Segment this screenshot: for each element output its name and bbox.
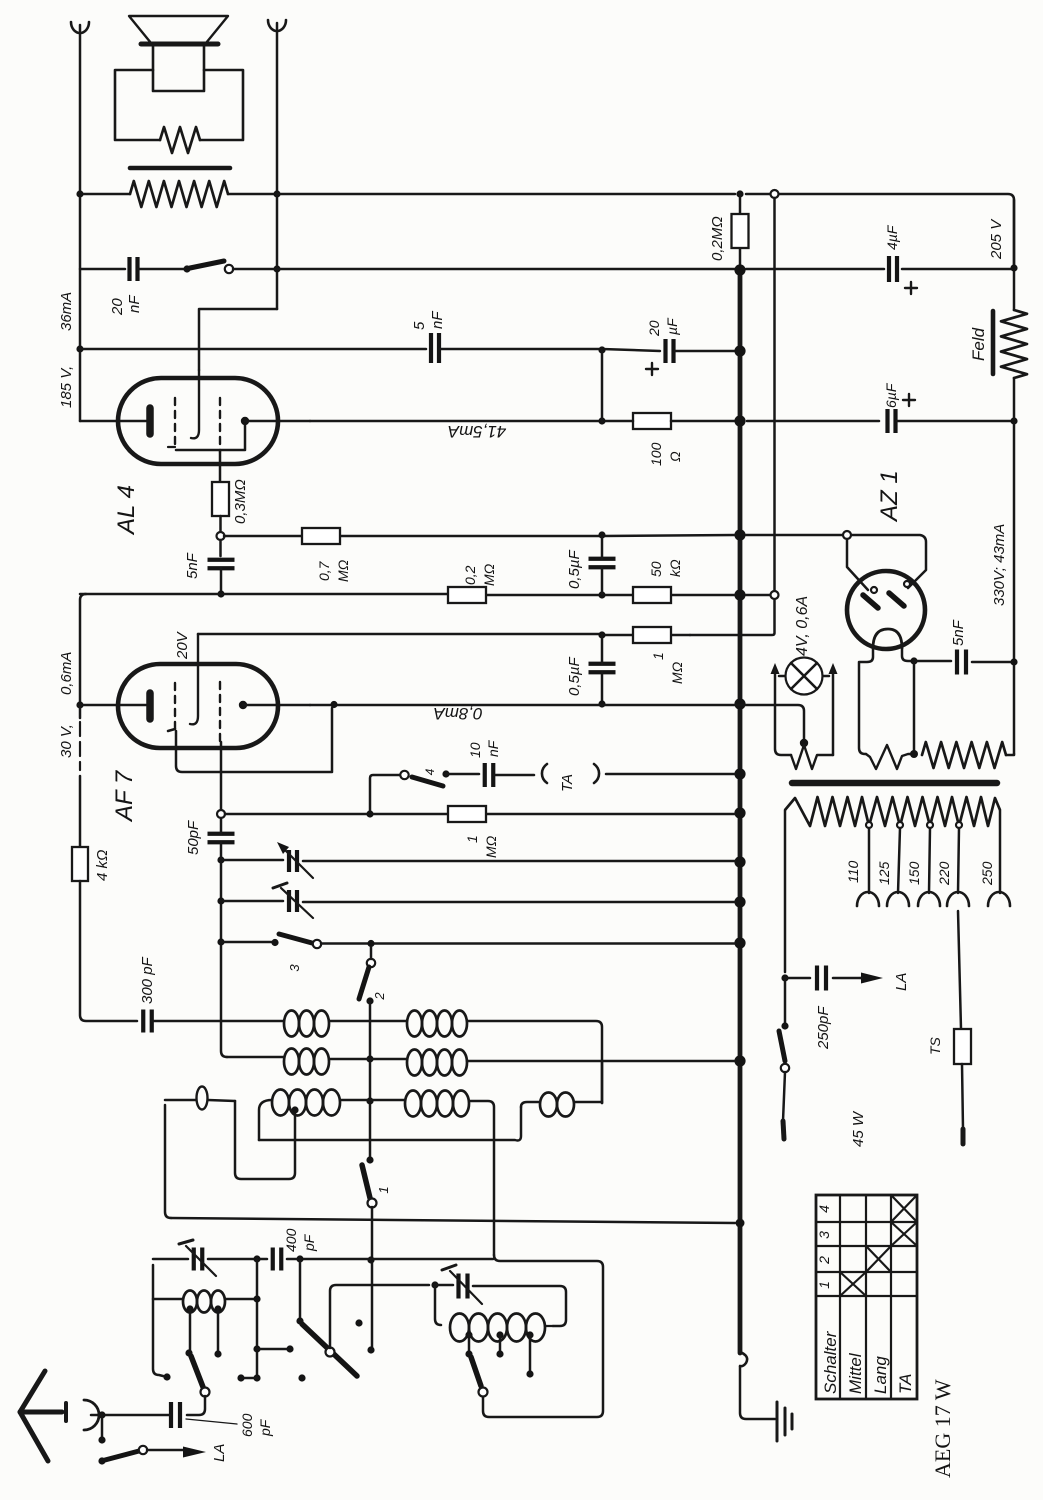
wire: y=269 from left rail	[80, 268, 125, 271]
wire: y=349 line	[80, 348, 426, 351]
bus blob y862	[734, 856, 745, 867]
junction dot x1014 y662	[1010, 658, 1017, 665]
svg-text:MΩ: MΩ	[669, 661, 685, 684]
bus blob y902	[734, 896, 745, 907]
lamp right leg	[832, 668, 835, 755]
wire: y=902 line	[221, 901, 735, 902]
ring terminal x774 y595	[771, 591, 779, 599]
svg-text:nF: nF	[429, 311, 446, 329]
wire: LA arrow line	[147, 1449, 183, 1452]
junction dot x221 y901	[217, 897, 224, 904]
table vertical lines	[840, 1195, 891, 1399]
svg-text:125: 125	[876, 861, 892, 885]
switch 2 ring	[367, 959, 375, 967]
AL4 anode dot	[241, 417, 249, 425]
AF7 control grid from top	[190, 634, 198, 724]
svg-text:100: 100	[648, 442, 664, 466]
svg-text:3: 3	[287, 964, 302, 972]
svg-text:0,7: 0,7	[316, 560, 332, 581]
wire: y=1286 right corner	[435, 1285, 566, 1326]
speaker terminal hook right	[268, 20, 286, 31]
junction dot x602 y595	[598, 591, 605, 598]
osc pickup loop	[165, 1100, 235, 1101]
svg-text:250: 250	[979, 861, 995, 886]
wire: 250pF line	[785, 977, 862, 980]
lamp arrow right	[829, 663, 838, 674]
junction dot x370 y1160	[366, 1156, 373, 1163]
wire: x435 down to coil	[435, 1285, 441, 1325]
wire: 220 hook to fuse	[958, 911, 961, 1029]
wire: 0,5uF#1 stubs	[601, 536, 604, 594]
wire: jog x494-x603	[483, 1255, 603, 1417]
switch LA ring	[139, 1446, 147, 1454]
AZ1 left anode ring	[871, 587, 877, 593]
svg-text:3: 3	[816, 1231, 832, 1239]
capacitor 4uF	[889, 256, 897, 282]
tube AF7 envelope	[118, 664, 278, 748]
svg-text:MΩ: MΩ	[335, 559, 351, 582]
ring x221 y814	[217, 810, 225, 818]
svg-text:20: 20	[646, 320, 662, 337]
bus blob y774	[734, 768, 745, 779]
svg-text:pF: pF	[257, 1418, 273, 1437]
wire: fuse to pin	[962, 1064, 963, 1129]
switch B lever	[302, 1324, 357, 1376]
contact dot x290 y1349	[286, 1345, 293, 1352]
wire: x914 down	[913, 661, 916, 754]
resistor 50k Ohm	[633, 587, 671, 603]
wire: y=943 line right	[321, 942, 735, 945]
wire: y=535 bus to AZ1	[746, 534, 843, 537]
wire: x257 vertical	[256, 1259, 259, 1378]
AF7 anode dot	[239, 701, 247, 709]
tap dot MW 2	[496, 1331, 503, 1338]
svg-text:nF: nF	[485, 739, 501, 757]
tap line 125	[898, 828, 900, 893]
svg-text:Ω: Ω	[667, 451, 683, 462]
svg-text:20: 20	[109, 298, 126, 316]
wire: anode line y=421	[310, 420, 879, 423]
junction dot x102 y1415	[98, 1411, 105, 1418]
resistor 0,2M Ohm #2	[448, 587, 486, 603]
AL4 anode lead	[245, 420, 310, 423]
switch C ring	[479, 1388, 488, 1397]
AL4 control grid from top	[191, 370, 199, 438]
ground symbol	[777, 1402, 792, 1441]
wire: x785 to switch	[784, 978, 787, 1024]
switch 1 ring	[368, 1199, 377, 1208]
switch A lever	[191, 1356, 203, 1387]
svg-text:2: 2	[372, 992, 387, 1001]
svg-text:2: 2	[816, 1256, 832, 1265]
AL4 grid 3 dashed	[219, 398, 221, 452]
switch dot	[183, 265, 190, 272]
plus sign 20uF	[646, 363, 658, 375]
switch A ring	[201, 1388, 210, 1397]
LA arrow tail	[860, 977, 862, 979]
switch B dot	[296, 1317, 303, 1324]
wire: right rail mid	[1013, 378, 1016, 754]
switch LA lever	[105, 1451, 139, 1460]
wire: swA to 600pF	[187, 1396, 205, 1415]
wire: 300pF to coil1a	[152, 1020, 284, 1023]
junction dot x914 y754	[910, 750, 918, 758]
contact dot x241 y1378	[237, 1374, 244, 1381]
svg-text:4µF: 4µF	[884, 224, 900, 250]
wire: anode line y=705	[310, 705, 804, 743]
switch 4 lever	[412, 777, 443, 786]
junction dot x277 y194	[273, 190, 280, 197]
AL4 bottom bracket	[176, 421, 245, 450]
switch 1 lever	[362, 1165, 370, 1198]
lamp circle	[786, 658, 823, 695]
wire: corner to coil2a	[227, 1057, 407, 1059]
wire: stub down	[101, 1415, 104, 1440]
svg-text:330V; 43mA: 330V; 43mA	[991, 524, 1008, 606]
svg-text:AEG 17 W: AEG 17 W	[930, 1379, 955, 1478]
mains switch dot	[781, 1022, 788, 1029]
switch B ring	[326, 1348, 335, 1357]
lamp arrow left	[771, 663, 780, 674]
AL4 cathode bar	[146, 408, 154, 434]
trimmer 4 arrow	[450, 1271, 482, 1304]
switch 2 lever	[359, 967, 369, 999]
AZ1 left anode bar	[863, 595, 878, 608]
svg-text:185 V,: 185 V,	[58, 366, 75, 408]
switch ring	[225, 265, 233, 273]
svg-text:pF: pF	[301, 1233, 317, 1252]
capacitor 50pF	[208, 834, 235, 843]
lamp cross	[791, 663, 817, 689]
junction dot right rail y=268	[1010, 264, 1017, 271]
wire MW coil right	[545, 1325, 553, 1327]
tap ring 220	[956, 822, 962, 828]
AL4 grid 1 foot	[168, 446, 175, 448]
bus dot y1223	[736, 1219, 745, 1228]
svg-text:50: 50	[648, 561, 664, 577]
svg-text:150: 150	[906, 861, 922, 885]
junction dot x300 y1259	[296, 1255, 303, 1262]
AF7 grid3 down	[220, 742, 223, 810]
svg-text:4 kΩ: 4 kΩ	[94, 850, 111, 881]
wire: AL4 g3 down	[219, 452, 222, 482]
svg-text:Feld: Feld	[969, 327, 988, 361]
capacitor 5nF (AL4 anode)	[431, 333, 439, 363]
junction dot x602 y535	[598, 531, 605, 538]
tube AL4 envelope	[118, 378, 278, 464]
wire: 6uF to right rail	[897, 420, 1014, 423]
svg-text:10: 10	[467, 742, 483, 758]
junction dot x334 y704	[330, 701, 337, 708]
svg-text:Mittel: Mittel	[846, 1352, 865, 1394]
primary winding zigzag	[785, 797, 1000, 826]
svg-text:36mA: 36mA	[58, 292, 75, 331]
wire: 4k to 300pF corner	[80, 881, 137, 1021]
speaker magnet bar	[141, 42, 218, 47]
wire: MW tap3 stem	[529, 1335, 532, 1374]
svg-text:TA: TA	[559, 774, 576, 792]
wire: y=943 line left	[221, 941, 275, 944]
wire: coil3a left drop	[259, 1100, 272, 1140]
wire: 5nF to y594	[220, 568, 223, 594]
switch C dot	[465, 1350, 472, 1357]
AL4 cathode lead	[80, 420, 146, 423]
svg-text:µF: µF	[664, 317, 680, 335]
wire: x221 segments	[221, 818, 227, 1057]
callout line 600pF	[186, 1419, 237, 1424]
tap ring 150	[927, 822, 933, 828]
coil L1b	[407, 1011, 422, 1037]
vertical x=602 between y350 and y421	[601, 350, 604, 421]
AZ1 left anode lead	[847, 539, 868, 590]
wire: 10nF to TA	[494, 774, 534, 777]
AL4 grid 1 dashed	[174, 398, 176, 447]
socket hook 150	[918, 892, 940, 906]
ring AZ1 anode feed	[843, 531, 851, 539]
speaker neck	[153, 44, 204, 91]
trimmer 3 arrow	[186, 1246, 216, 1276]
svg-text:LA: LA	[893, 973, 910, 991]
wire: 0,5uF#2 stubs	[601, 635, 604, 704]
ring x220 y536	[217, 532, 225, 540]
wire: 600pF left	[102, 1414, 170, 1417]
antenna symbol	[20, 1371, 48, 1461]
wire: y=662 line	[914, 661, 1014, 662]
AZ1 filament dome	[873, 629, 902, 648]
resistor 1M Ohm #2	[448, 806, 486, 822]
speaker cone	[129, 16, 228, 43]
junction dot x80 y194	[76, 190, 83, 197]
svg-text:45 W: 45 W	[850, 1110, 867, 1147]
tap dot ant coil 1	[186, 1305, 193, 1312]
svg-text:205 V: 205 V	[988, 218, 1005, 260]
svg-text:TS: TS	[927, 1036, 943, 1055]
trimmer capacitor 1	[289, 850, 297, 872]
antenna coil	[183, 1291, 197, 1313]
wire: y=814 line	[225, 813, 735, 816]
svg-text:50pF: 50pF	[185, 820, 202, 855]
resistor 0,3M Ohm	[212, 482, 229, 516]
bus blob y595	[734, 589, 745, 600]
ring terminal x775 y194	[771, 190, 779, 198]
svg-text:250pF: 250pF	[815, 1006, 832, 1050]
wire: x=775 vertical	[690, 198, 775, 635]
contact dot x530 y1374	[526, 1370, 533, 1377]
junction dot right rail y=421	[1010, 417, 1017, 424]
junction dot x602 y350	[598, 346, 605, 353]
wire: 0,3M to ring	[219, 516, 222, 532]
tap line 150	[929, 828, 930, 893]
wire: x=370 below sw1	[371, 1207, 374, 1350]
svg-text:0,6mA: 0,6mA	[58, 652, 75, 695]
junction dot x914 y661	[910, 657, 917, 664]
junction dot x785 y978	[781, 974, 788, 981]
capacitor 20nF	[130, 257, 138, 281]
junction dot x80 y349	[76, 345, 83, 352]
capacitor 400pF	[273, 1248, 282, 1271]
bus thick vertical	[738, 270, 743, 1353]
plus sign 4uF	[905, 282, 917, 294]
junction dot x602 y635	[598, 631, 605, 638]
resistor 0,2M Ohm	[732, 214, 749, 248]
wire: zigzag to right rail	[1006, 754, 1014, 755]
wire: coil1a-coil1b	[329, 1020, 407, 1023]
AZ1 filament W	[866, 745, 914, 769]
wire: coil2b to bus	[467, 1060, 735, 1063]
tap ring 110	[866, 822, 872, 828]
wire: MW tap2 stem	[499, 1335, 502, 1354]
switch 4 dot	[442, 770, 449, 777]
wire: MW tap1 stem	[468, 1335, 471, 1354]
AF7 anode lead	[243, 704, 310, 707]
TA pickup jack right	[594, 764, 599, 783]
bus blob y421	[734, 415, 745, 426]
svg-text:5: 5	[411, 321, 428, 330]
switch 3 lever	[279, 934, 312, 943]
AZ1 filament right leg	[902, 648, 914, 661]
svg-text:0,5µF: 0,5µF	[566, 550, 583, 589]
speaker terminal hook left	[71, 22, 89, 33]
bus blob y1061	[734, 1055, 745, 1066]
AZ1 right anode ring	[904, 581, 910, 587]
wire: y=1220 long line	[171, 1218, 735, 1223]
wire: x=602 to link coil	[601, 1062, 604, 1103]
trimmer capacitor 3	[194, 1248, 203, 1271]
AF7 cathode lead	[80, 704, 146, 707]
mains pin 1	[783, 1121, 784, 1139]
tap dot MW 1	[465, 1331, 472, 1338]
mains switch lever	[779, 1031, 785, 1061]
bus blob y270	[734, 264, 745, 275]
wire: y=1141 link line	[259, 1107, 521, 1141]
trimmer capacitor 4 (MW)	[459, 1274, 468, 1299]
wire: dot to 10nF	[446, 773, 479, 776]
junction dot x277 y269	[273, 265, 280, 272]
switch A dot	[185, 1349, 192, 1356]
tap line 220	[958, 828, 959, 893]
wire: 5nF to 20uF	[440, 349, 660, 351]
tube AZ1 envelope	[847, 571, 925, 649]
svg-text:41,5mA: 41,5mA	[448, 422, 507, 441]
switch 2 dot	[366, 997, 373, 1004]
plus sign 6uF	[903, 394, 915, 406]
field coil Feld zigzag	[1001, 310, 1027, 378]
output transformer box	[115, 70, 243, 140]
svg-text:Schalter: Schalter	[821, 1330, 840, 1394]
wire: tap2 stem	[217, 1309, 220, 1354]
svg-text:TA: TA	[896, 1374, 915, 1394]
junction dot x370 y1101	[366, 1097, 373, 1104]
AF7 grid1 drop	[168, 708, 332, 772]
AF7 grid1 dashed	[174, 683, 176, 729]
svg-text:LA: LA	[211, 1444, 228, 1462]
svg-text:30 V,: 30 V,	[58, 724, 75, 758]
wire: primary left drop	[784, 810, 787, 972]
coil L3a	[272, 1090, 289, 1116]
wire: link coil ends	[521, 1102, 602, 1107]
wire: osc box left edge	[165, 1105, 171, 1218]
socket hook 110	[857, 892, 879, 906]
table X mittel-1	[840, 1272, 866, 1296]
table X ta-4	[891, 1195, 917, 1222]
capacitor 0,5uF lower	[589, 664, 616, 673]
coil L1a	[284, 1011, 299, 1037]
svg-text:0,2MΩ: 0,2MΩ	[709, 216, 726, 261]
wire: y=634 line	[198, 634, 690, 635]
svg-text:AF 7: AF 7	[111, 769, 138, 823]
capacitor 6uF	[888, 409, 896, 433]
switch C lever	[471, 1357, 481, 1386]
svg-text:1: 1	[816, 1281, 832, 1289]
bus blob y535	[734, 529, 745, 540]
tap dot MW 3	[526, 1331, 533, 1338]
contact dot x500 y1354	[496, 1350, 503, 1357]
junction dot x257 y1349	[253, 1345, 260, 1352]
resistor 0,7M Ohm	[302, 528, 340, 544]
resistor 4k Ohm	[72, 847, 88, 881]
junction dot x257 y1259	[253, 1255, 260, 1262]
lamp stubs	[779, 675, 829, 678]
wire: y=535 line	[224, 535, 735, 536]
svg-text:0,8mA: 0,8mA	[433, 704, 482, 723]
transformer lamination bar	[130, 166, 230, 171]
wire: coil3b right corner down x=494	[469, 1101, 494, 1255]
capacitor 0,5uF upper	[589, 559, 616, 568]
wire: x=370 vertical	[369, 1001, 372, 1160]
wire: tap1 stem	[189, 1309, 190, 1353]
junction dot bus y194	[736, 190, 743, 197]
wire: switch to pin	[783, 1072, 785, 1121]
contact dot x167 y1377	[163, 1373, 170, 1380]
fuse TS	[954, 1029, 971, 1064]
switch 4 ring	[400, 771, 408, 779]
socket hook 220	[947, 892, 969, 906]
capacitor 5nF AZ1	[957, 650, 966, 675]
svg-text:MΩ: MΩ	[483, 835, 499, 858]
resistor 1M Ohm	[633, 627, 671, 643]
svg-text:400: 400	[283, 1228, 299, 1252]
svg-text:1: 1	[376, 1186, 391, 1193]
bus blob y813	[734, 807, 745, 818]
switch 3 dot	[271, 939, 278, 946]
wire: left rail x=80 top	[79, 25, 82, 421]
LA arrow right	[861, 973, 883, 984]
AZ1 bracket	[847, 535, 926, 588]
svg-text:nF: nF	[126, 295, 143, 313]
svg-text:AL 4: AL 4	[113, 485, 140, 536]
resistor 100 Ohm	[633, 413, 671, 429]
switch 3 ring	[313, 940, 321, 948]
AZ1 right anode bar	[889, 593, 904, 606]
socket hook 250	[988, 892, 1010, 906]
antenna coupling arc	[84, 1400, 99, 1430]
wire: y=194 line to right edge	[277, 194, 1014, 268]
wire: osc loop right bracket	[235, 1101, 295, 1179]
svg-text:4: 4	[816, 1205, 832, 1213]
wire: x153 to ant coil	[153, 1298, 257, 1301]
socket hook 125	[887, 892, 909, 906]
contact dot x302 y1378	[298, 1374, 305, 1381]
contact dot x371 y1350	[367, 1346, 374, 1353]
svg-text:1: 1	[464, 835, 480, 843]
svg-text:0,2: 0,2	[462, 565, 478, 585]
svg-text:4V, 0,6A: 4V, 0,6A	[794, 596, 811, 656]
capacitor 20uF electrolytic	[666, 339, 674, 363]
TA pickup jack left	[542, 764, 547, 783]
heater dropper zigzag	[922, 742, 1006, 768]
field coil core bar	[991, 311, 996, 374]
AF7 grid3 dashed	[219, 682, 221, 742]
